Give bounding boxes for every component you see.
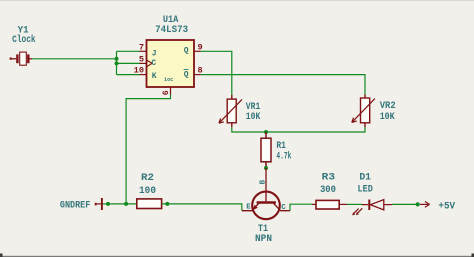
- svg-text:ioc: ioc: [164, 77, 173, 83]
- clock triangle: [147, 60, 153, 67]
- crystal Y1: [10, 52, 32, 65]
- svg-text:LED: LED: [358, 184, 373, 195]
- svg-text:E: E: [246, 203, 251, 211]
- potentiometer VR1: [219, 95, 242, 127]
- svg-text:7: 7: [139, 42, 144, 52]
- svg-text:100: 100: [139, 186, 156, 197]
- svg-text:R2: R2: [141, 173, 154, 184]
- pin 7 line: [140, 50, 147, 52]
- svg-text:B: B: [260, 179, 268, 184]
- junction clock bus: [115, 57, 119, 61]
- wire VR1 bottom to VR2 bottom: [232, 127, 365, 132]
- wire to pin J: [117, 50, 140, 52]
- junction C branch: [115, 61, 119, 65]
- svg-text:J: J: [152, 49, 157, 58]
- svg-text:10: 10: [134, 66, 144, 76]
- svg-text:5: 5: [139, 55, 144, 65]
- svg-text:R3: R3: [322, 173, 335, 184]
- wire R2 to T1 emitter: [162, 204, 242, 211]
- wire pin6 down: [126, 95, 170, 204]
- svg-text:R1: R1: [276, 141, 286, 152]
- wire collector to R3: [290, 204, 312, 211]
- pin 6 line: [170, 87, 172, 95]
- junction R1 top: [264, 130, 268, 134]
- ground GNDREF: [95, 198, 102, 210]
- junction R2 right: [165, 202, 169, 206]
- junction R1 bottom: [264, 166, 268, 170]
- pin 9 line: [194, 50, 201, 52]
- wire Q to VR1: [201, 51, 232, 95]
- junction +5V: [416, 202, 420, 206]
- svg-text:C: C: [151, 59, 156, 68]
- svg-text:D1: D1: [359, 173, 371, 184]
- bottom window edge: [0, 256, 474, 257]
- junction bottom of pin6 wire: [124, 202, 128, 206]
- svg-text:4.7k: 4.7k: [276, 151, 291, 163]
- wire gnd to R2: [108, 203, 137, 205]
- op IC U1A 74LS73 body: [147, 40, 195, 87]
- svg-text:K: K: [152, 72, 157, 81]
- svg-text:10K: 10K: [380, 112, 395, 123]
- svg-text:74LS73: 74LS73: [155, 25, 188, 36]
- svg-text:6: 6: [162, 90, 171, 95]
- pin 10 line: [140, 74, 147, 76]
- wire vertical bus: [116, 51, 118, 74]
- svg-text:C: C: [281, 204, 286, 212]
- LED D1: [352, 200, 392, 216]
- pin 5 line: [140, 62, 147, 64]
- svg-text:NPN: NPN: [255, 234, 272, 245]
- pin 8 line: [194, 74, 201, 76]
- svg-text:Q: Q: [184, 47, 189, 56]
- bottom-right corner mark: [472, 254, 474, 257]
- power +5V arrow: [420, 202, 430, 208]
- resistor R3: [312, 200, 347, 209]
- wire Qbar to VR2: [201, 75, 365, 95]
- top window edge: [0, 0, 474, 1]
- wire to pin K: [117, 74, 140, 76]
- svg-text:300: 300: [320, 185, 336, 196]
- potentiometer VR2: [352, 95, 375, 128]
- svg-text:VR2: VR2: [380, 101, 396, 112]
- svg-text:Clock: Clock: [12, 34, 36, 46]
- svg-text:U1A: U1A: [163, 15, 179, 26]
- svg-text:+5V: +5V: [438, 202, 455, 213]
- svg-text:10K: 10K: [246, 112, 260, 123]
- wire clock horizontal: [32, 58, 117, 60]
- svg-text:GNDREF: GNDREF: [60, 200, 90, 211]
- wire D1 to +5V: [392, 203, 418, 205]
- resistor R2: [137, 199, 162, 209]
- junction gnd: [106, 202, 110, 206]
- transistor T1: [242, 168, 290, 219]
- wire to pin C: [117, 62, 140, 64]
- bottom-left corner mark: [0, 254, 3, 257]
- resistor R1: [261, 132, 271, 168]
- svg-text:Q: Q: [184, 70, 189, 79]
- wire R3 to D1: [347, 203, 362, 205]
